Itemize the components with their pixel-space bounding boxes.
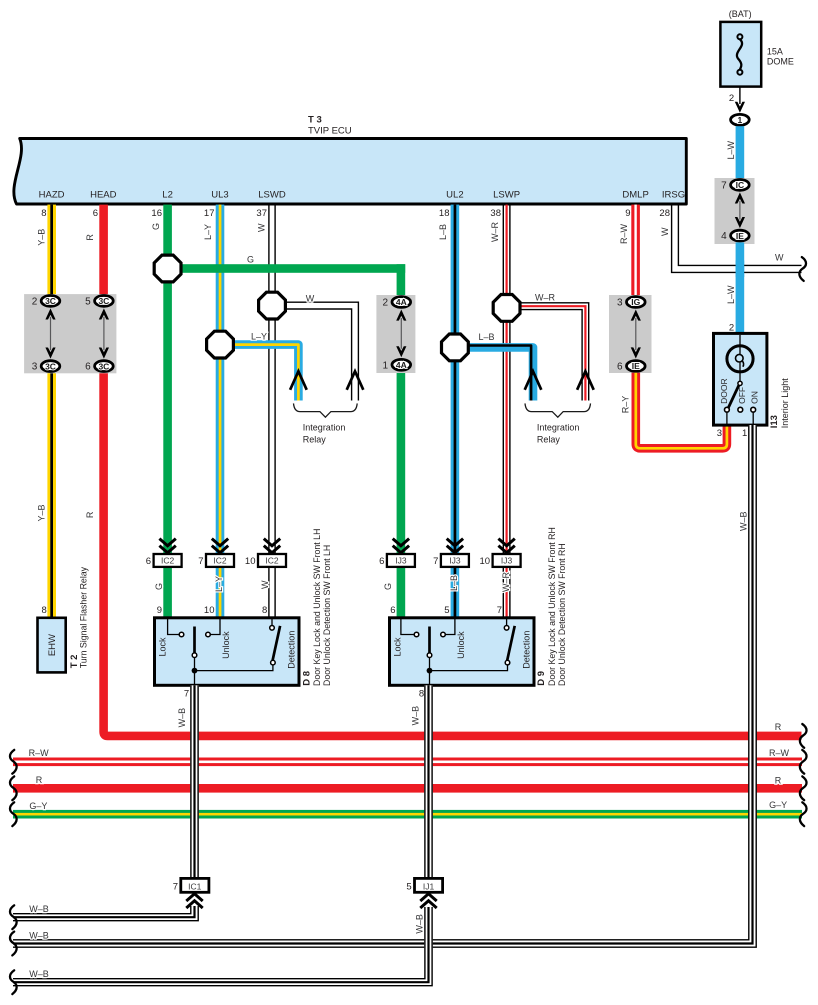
ECU pin names (39, 190, 685, 201)
label T 3 TVIP ECU (308, 115, 352, 137)
svg-text:R: R (85, 234, 95, 241)
svg-text:G: G (383, 583, 393, 590)
wire W-R (LSWP pin 38 to D9 Detection pin 7) (490, 205, 511, 618)
junction octagon on wire W-R (493, 295, 520, 322)
junction octagon on wire W (259, 292, 286, 319)
svg-text:IJ3: IJ3 (449, 556, 461, 566)
svg-text:6: 6 (93, 208, 98, 219)
svg-text:6: 6 (390, 605, 395, 616)
svg-text:TVIP ECU: TVIP ECU (308, 126, 352, 137)
svg-text:3: 3 (717, 428, 722, 439)
svg-text:18: 18 (439, 208, 450, 219)
svg-text:IJ3: IJ3 (395, 556, 407, 566)
svg-text:3C: 3C (98, 361, 109, 371)
wire R-Y (junction IE to interior light pin 3) (621, 373, 727, 449)
interior light I13 box with lamp and DOOR/OFF/ON switch (714, 333, 767, 425)
svg-text:2: 2 (383, 298, 389, 309)
svg-text:16: 16 (151, 208, 162, 219)
svg-text:7: 7 (198, 556, 203, 567)
svg-text:15A: 15A (767, 47, 783, 57)
svg-text:G: G (154, 583, 164, 590)
svg-text:9: 9 (625, 208, 630, 219)
svg-text:DOME: DOME (767, 57, 794, 67)
svg-text:W: W (306, 293, 315, 303)
svg-text:L–Y: L–Y (214, 576, 224, 592)
svg-text:G: G (247, 255, 254, 265)
door key lock and unlock switch D8 (155, 618, 300, 700)
connector 6|IC2 on wire G (146, 539, 182, 567)
wire W-B (D8 pin 7 to connector IC1) (177, 685, 199, 878)
svg-text:Door Key Lock and Unlock SW Fr: Door Key Lock and Unlock SW Front LH (312, 529, 322, 686)
svg-text:6: 6 (146, 556, 151, 567)
D9 pin numbers 6 5 7 (390, 605, 502, 616)
svg-text:W–B: W–B (411, 706, 421, 726)
svg-text:W–R: W–R (501, 572, 511, 593)
svg-text:8: 8 (262, 605, 267, 616)
integration relay arrows LH (290, 371, 363, 390)
svg-text:6: 6 (617, 362, 623, 373)
svg-text:IC2: IC2 (213, 556, 227, 566)
svg-text:LSWD: LSWD (258, 190, 286, 201)
fuse F1 15A DOME (BAT) (720, 9, 794, 87)
connector 6|IJ3 on wire G (379, 539, 415, 567)
svg-text:UL3: UL3 (211, 190, 228, 201)
svg-text:W–B: W–B (29, 904, 49, 914)
svg-text:3C: 3C (98, 296, 109, 306)
svg-text:IC2: IC2 (161, 556, 175, 566)
svg-text:3: 3 (32, 362, 38, 373)
svg-text:8: 8 (419, 689, 424, 700)
svg-text:W–B: W–B (29, 969, 49, 979)
svg-text:L–Y: L–Y (251, 332, 267, 342)
svg-text:17: 17 (204, 208, 215, 219)
svg-text:7: 7 (173, 881, 178, 892)
svg-text:IG: IG (631, 297, 640, 307)
svg-text:DMLP: DMLP (622, 190, 648, 201)
connector 7|IC2 on wire L-Y (198, 539, 234, 567)
wire W-B (left break to connector IJ1) (10, 907, 432, 994)
svg-text:W–B: W–B (29, 931, 49, 941)
integration relay label RH (525, 403, 591, 444)
svg-text:9: 9 (157, 605, 162, 616)
svg-text:Lock: Lock (393, 637, 403, 657)
wire W (LSWD pin 37 to D8 Detection pin 8) (257, 205, 276, 618)
label I13 Interior Light (769, 378, 790, 429)
connector 10|IC2 on wire W (245, 539, 286, 567)
svg-text:IC2: IC2 (265, 556, 279, 566)
svg-text:8: 8 (41, 208, 46, 219)
svg-text:R–W: R–W (769, 748, 790, 758)
svg-text:W–B: W–B (414, 914, 424, 934)
svg-text:7: 7 (433, 556, 438, 567)
wire L-B branch (octagon to integration relay) (455, 332, 533, 401)
svg-text:4A: 4A (396, 297, 407, 307)
svg-text:Y–B: Y–B (36, 229, 46, 246)
svg-text:Integration: Integration (303, 423, 346, 433)
wire W-B (D9 pin 8 to connector IJ1) (411, 685, 433, 879)
svg-text:L–B: L–B (449, 575, 459, 591)
label D9 Door Key Lock and Unlock SW Front RH (536, 527, 567, 686)
svg-text:5: 5 (406, 881, 411, 892)
svg-text:3C: 3C (45, 361, 56, 371)
svg-text:OFF: OFF (737, 387, 747, 404)
junction octagon on wire L-B (442, 334, 469, 361)
wire G branch (octagon junction to 4A to D9 Lock pin 6) (168, 255, 406, 618)
svg-text:G: G (151, 223, 161, 230)
svg-text:10: 10 (204, 605, 215, 616)
integration relay arrows RH (525, 371, 594, 390)
wire L-B (UL2 pin 18 to D9 Unlock pin 5) (438, 205, 459, 618)
D8 pin numbers 9 10 8 (157, 605, 268, 616)
svg-text:2: 2 (729, 93, 734, 104)
svg-text:1: 1 (738, 115, 743, 125)
junction connector block 4A (pins 2/1) (376, 295, 415, 373)
connector 7|IC1 (173, 878, 209, 908)
svg-text:Interior Light: Interior Light (780, 378, 790, 429)
svg-text:L2: L2 (162, 190, 173, 201)
svg-text:L–B: L–B (438, 224, 448, 240)
svg-text:Relay: Relay (303, 435, 327, 445)
svg-text:R: R (36, 775, 43, 785)
svg-text:10: 10 (480, 556, 491, 567)
svg-text:7: 7 (721, 181, 727, 192)
svg-text:(BAT): (BAT) (729, 9, 752, 19)
svg-text:Unlock: Unlock (456, 631, 466, 659)
svg-text:4: 4 (721, 231, 727, 242)
svg-text:DOOR: DOOR (719, 378, 729, 404)
svg-text:10: 10 (245, 556, 256, 567)
svg-text:W–R: W–R (535, 293, 556, 303)
svg-text:IC: IC (736, 180, 745, 190)
wire W branch (octagon to integration relay) (282, 293, 358, 400)
svg-text:Y–B: Y–B (36, 504, 46, 521)
fuse output lead pin 2 with arrow (729, 87, 745, 113)
svg-text:IRSG: IRSG (662, 190, 685, 201)
connector 10|IJ3 on wire W-R (480, 539, 521, 567)
svg-text:T 3: T 3 (308, 115, 322, 126)
svg-text:LSWP: LSWP (493, 190, 520, 201)
junction octagon on wire L-Y (207, 331, 234, 358)
wire Y-B (HAZD pin 8 to EHW) (36, 205, 56, 618)
svg-text:R: R (85, 511, 95, 518)
wire L-Y branch (octagon to integration relay) (220, 332, 298, 401)
svg-text:L–Y: L–Y (203, 224, 213, 240)
svg-text:W–B: W–B (177, 708, 187, 728)
svg-text:5: 5 (85, 297, 91, 308)
interior light pin numbers 3 and 1 (717, 428, 748, 439)
svg-text:R–W: R–W (619, 223, 629, 244)
wire L-W segment crossing over wire W (736, 261, 745, 278)
svg-text:Door Unlock Detection SW Front: Door Unlock Detection SW Front RH (557, 543, 567, 686)
ECU pin numbers (41, 208, 670, 219)
wire L-W (junction IE to interior light pin 2) (726, 242, 744, 334)
svg-text:R: R (775, 775, 782, 785)
svg-text:IE: IE (736, 231, 744, 241)
svg-text:W: W (660, 227, 670, 236)
svg-text:2: 2 (32, 297, 38, 308)
wire R (HEAD pin 6 down to bus R) (85, 205, 801, 736)
svg-text:7: 7 (184, 689, 189, 700)
label D8 Door Key Lock and Unlock SW Front LH (301, 529, 332, 686)
svg-text:Turn Signal Flasher Relay: Turn Signal Flasher Relay (79, 566, 89, 668)
bus G-Y (10, 800, 807, 826)
svg-text:Door Unlock Detection SW Front: Door Unlock Detection SW Front LH (322, 545, 332, 686)
wire W-B (interior light pin 1 to left break) (10, 425, 756, 955)
connector 7|IJ3 on wire L-B (433, 539, 469, 567)
svg-text:W: W (260, 580, 270, 589)
svg-text:Door Key Lock and Unlock SW Fr: Door Key Lock and Unlock SW Front RH (547, 527, 557, 686)
svg-text:Unlock: Unlock (221, 631, 231, 659)
svg-text:W–R: W–R (490, 222, 500, 243)
svg-text:L–W: L–W (726, 285, 736, 304)
svg-text:W: W (775, 253, 784, 263)
svg-text:L–W: L–W (726, 140, 736, 159)
svg-text:4A: 4A (396, 360, 407, 370)
svg-text:L–B: L–B (478, 332, 494, 342)
svg-text:3: 3 (617, 298, 623, 309)
svg-text:D 8: D 8 (301, 671, 312, 686)
svg-text:Detection: Detection (522, 631, 532, 669)
svg-text:IJ1: IJ1 (423, 881, 435, 891)
svg-text:IJ3: IJ3 (501, 556, 513, 566)
svg-text:G–Y: G–Y (769, 800, 787, 810)
label T2 Turn Signal Flasher Relay (69, 566, 89, 668)
junction connector block 3C (pins 2/3 and 5/6) (24, 294, 116, 373)
svg-text:8: 8 (42, 605, 47, 616)
svg-text:W: W (257, 223, 267, 232)
svg-text:6: 6 (85, 362, 91, 373)
svg-text:37: 37 (256, 208, 267, 219)
bus R right label and break (775, 722, 807, 748)
svg-text:7: 7 (497, 605, 502, 616)
svg-text:Relay: Relay (537, 435, 561, 445)
svg-text:R–Y: R–Y (621, 396, 631, 414)
wire L-Y (UL3 pin 17 to D8 Unlock pin 10) (203, 205, 225, 618)
wire G (L2 pin 16 to D8 Lock pin 9) (151, 205, 172, 618)
svg-text:Detection: Detection (287, 631, 297, 669)
integration relay label LH (294, 403, 358, 444)
ECU T3 TVIP ECU box (14, 139, 686, 205)
bus R-W (10, 748, 807, 774)
svg-text:D 9: D 9 (536, 671, 547, 686)
svg-text:R–W: R–W (29, 748, 50, 758)
wire L-W (connector 1 to junction IC) (726, 126, 744, 179)
svg-text:Lock: Lock (158, 637, 168, 657)
svg-text:I13: I13 (769, 415, 780, 428)
relay EHW (turn signal flasher) (38, 605, 66, 672)
svg-text:UL2: UL2 (446, 190, 463, 201)
svg-text:2: 2 (729, 322, 734, 333)
svg-text:EHW: EHW (47, 634, 58, 656)
junction connector block IC(7)/IE(4) (715, 178, 755, 244)
svg-text:1: 1 (383, 360, 389, 371)
junction octagon on wire G (154, 255, 181, 282)
svg-text:G–Y: G–Y (29, 801, 47, 811)
svg-text:28: 28 (659, 208, 670, 219)
svg-text:ON: ON (750, 391, 760, 404)
connector 5|IJ1 (406, 878, 442, 908)
svg-text:Integration: Integration (537, 423, 580, 433)
svg-text:W–B: W–B (739, 511, 749, 531)
wire W-R branch (octagon to integration relay) (516, 293, 589, 401)
svg-text:R: R (775, 722, 782, 732)
wire W (IRSG pin 28 to right break) (660, 205, 806, 281)
svg-text:IC1: IC1 (188, 881, 202, 891)
svg-text:38: 38 (490, 208, 501, 219)
svg-text:IE: IE (632, 361, 640, 371)
connector node 1 (731, 114, 750, 125)
svg-text:5: 5 (444, 605, 449, 616)
svg-text:HEAD: HEAD (90, 190, 117, 201)
svg-text:1: 1 (742, 428, 747, 439)
svg-text:3C: 3C (45, 296, 56, 306)
wire R-W (DMLP pin 9 to junction IG) (619, 205, 640, 296)
junction connector block IG(3)/IE(6) (609, 295, 652, 373)
svg-text:6: 6 (379, 556, 384, 567)
svg-text:HAZD: HAZD (39, 190, 65, 201)
wire W-B (left break to connector IC1) (10, 904, 198, 929)
bus R lower (10, 775, 807, 800)
door key lock and unlock switch D9 (390, 618, 535, 700)
